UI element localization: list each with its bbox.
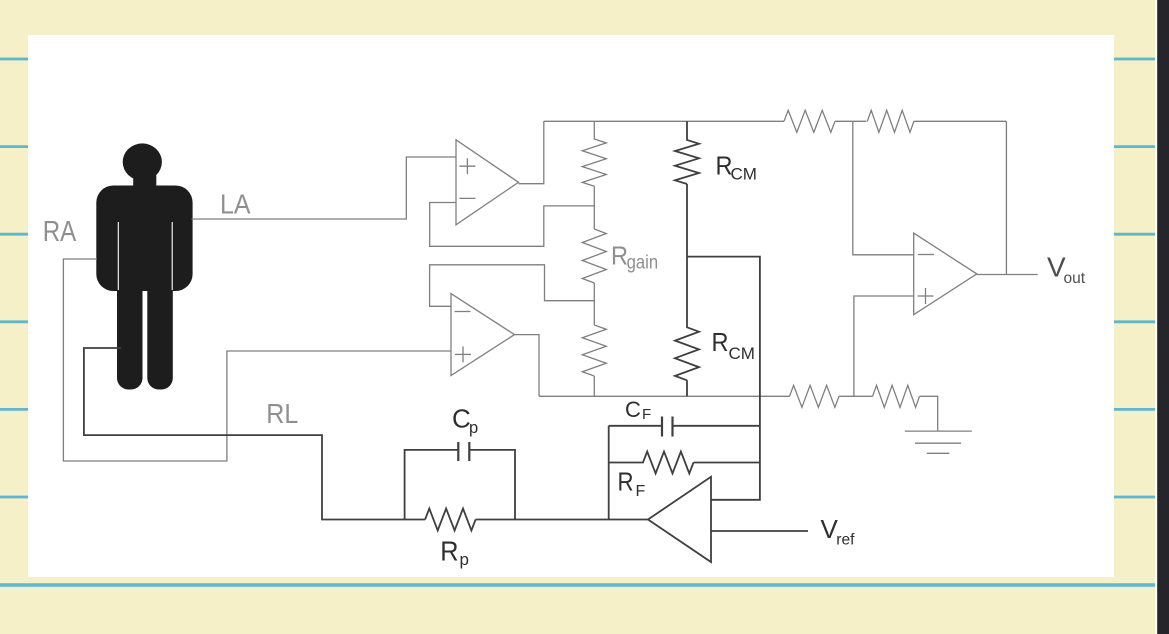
resistor RCM top [675, 121, 699, 256]
svg-text:RA: RA [43, 216, 77, 248]
wire A3 feedback right side [1005, 121, 1007, 274]
svg-text:R: R [611, 241, 628, 271]
svg-text:gain: gain [627, 253, 659, 274]
wire common-mode node to DRL amp input [687, 257, 760, 500]
wire CF/RF left vertical to DRL output [608, 426, 610, 520]
svg-text:R: R [712, 327, 729, 357]
svg-text:C: C [625, 397, 641, 422]
svg-text:out: out [1064, 270, 1086, 287]
op-amp A2 [451, 294, 515, 376]
svg-text:ref: ref [836, 531, 855, 548]
resistor R6 (to ground) [873, 385, 920, 407]
svg-text:R: R [440, 536, 458, 567]
ground [905, 431, 972, 453]
svg-text:CM: CM [729, 344, 755, 363]
wire RA lead (right arm to A2 + input) [63, 259, 451, 461]
wire Vref [711, 530, 808, 532]
resistor RF [609, 452, 760, 474]
svg-text:C: C [452, 404, 471, 434]
resistor R4 (A3 feedback) [867, 110, 914, 132]
wire A1 output to top rail [519, 121, 544, 183]
wire bottom rail [539, 396, 938, 431]
wire A1 inverting feedback loop [430, 203, 595, 247]
resistor RCM bottom [675, 257, 699, 397]
wire top rail [544, 120, 1007, 122]
svg-text:F: F [636, 483, 646, 500]
svg-text:p: p [460, 550, 469, 569]
svg-text:R: R [618, 467, 634, 497]
wire LA lead (left arm to A1 + input) [192, 157, 457, 219]
wire A3 - input [853, 121, 914, 255]
resistor Rgain [582, 229, 606, 325]
capacitor CF [609, 417, 760, 437]
svg-text:F: F [642, 406, 651, 423]
wire A2 inverting feedback loop [430, 265, 595, 307]
svg-text:p: p [469, 419, 478, 437]
svg-text:LA: LA [220, 189, 251, 220]
resistor R2b (A2 feedback) [582, 325, 606, 396]
resistor R2a (A1 feedback) [582, 121, 606, 229]
resistor R5 (A3 + input) [790, 385, 840, 407]
wire A3 + input [854, 296, 914, 396]
resistor R3 (A3 - input series) [784, 110, 835, 132]
op-amp A3 (difference amplifier) [914, 233, 977, 315]
wire RL return (A4 output through Rp to RL) [84, 348, 648, 520]
resistor Rp [425, 509, 476, 531]
op-amp A1 [456, 140, 519, 225]
wire Vout [977, 274, 1038, 276]
svg-text:RL: RL [266, 398, 298, 429]
wire A2 output to bottom rail [515, 335, 540, 397]
op-amp A4 (driven-right-leg buffer) [648, 477, 711, 562]
capacitor Cp (parallel with Rp) [405, 442, 515, 520]
person (patient body) [96, 143, 192, 389]
svg-text:CM: CM [731, 165, 757, 184]
